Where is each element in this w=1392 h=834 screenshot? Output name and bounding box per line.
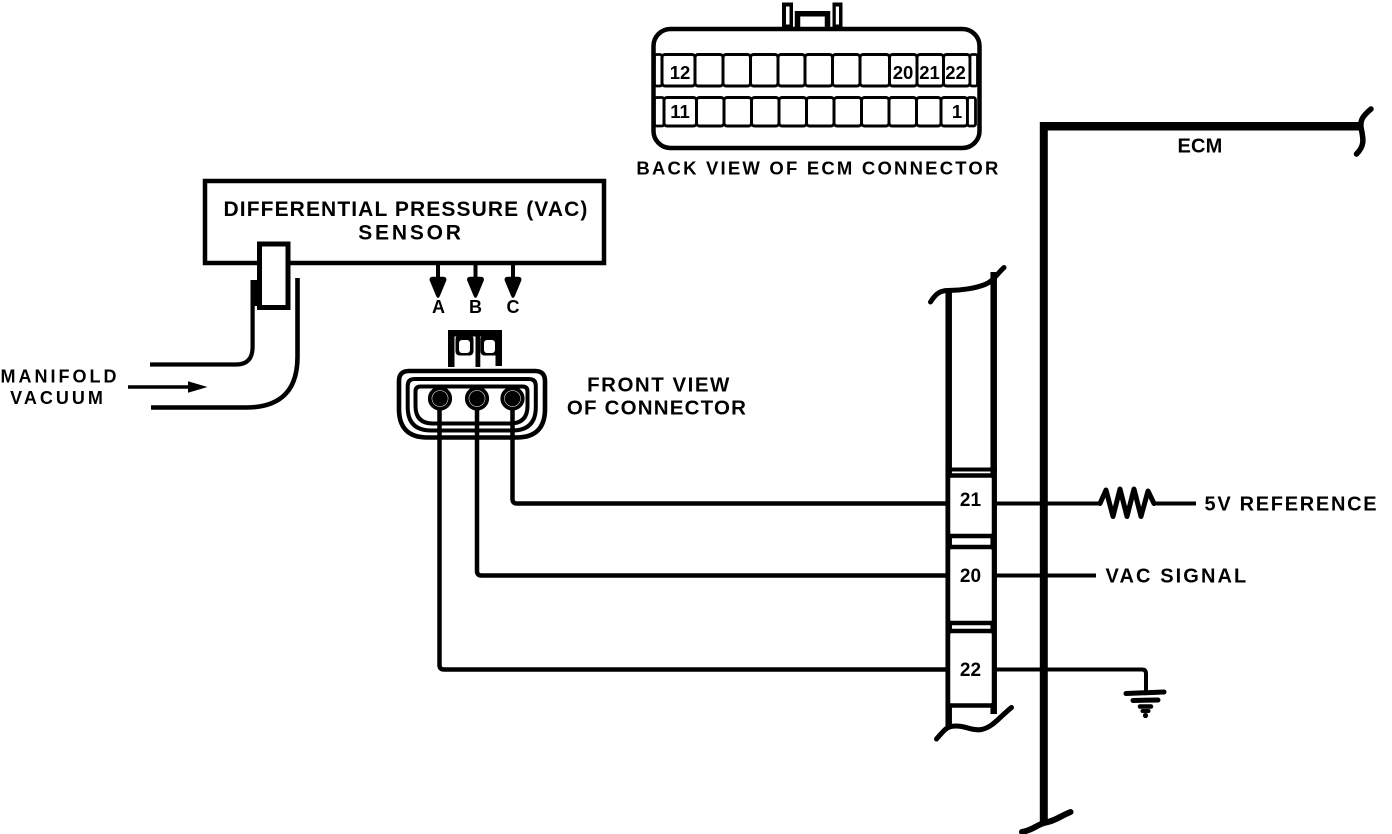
- wire pin 22 to ground: [994, 670, 1146, 692]
- sensor terminal arrow A: [430, 264, 447, 298]
- connector J2 latch right prong: [833, 3, 843, 31]
- pin cell 3: [889, 98, 917, 127]
- connector J2 back view shell: [654, 29, 980, 148]
- connector J2 latch handle: [798, 14, 828, 29]
- break symbol at ECM bottom: [1022, 812, 1071, 832]
- pin cell 6: [807, 98, 835, 127]
- vacuum pipe lower wall: [151, 278, 298, 408]
- pin cell 1: [941, 98, 968, 127]
- ECM box left edge wire: [1040, 122, 1048, 822]
- ECM pin 22 box: [948, 631, 994, 706]
- svg-text:OF CONNECTOR: OF CONNECTOR: [567, 397, 747, 420]
- svg-text:21: 21: [919, 62, 940, 83]
- svg-text:ECM: ECM: [1177, 136, 1222, 158]
- pin cell row 1 sliver left: [655, 55, 663, 87]
- pin cell 9: [724, 98, 752, 127]
- pin cell 19: [860, 55, 890, 87]
- manifold vacuum arrow: [128, 381, 208, 393]
- connector J1 outer shell: [399, 371, 545, 438]
- pin cell 20: [890, 55, 918, 87]
- svg-text:B: B: [469, 297, 482, 317]
- pin cell 15: [751, 55, 779, 87]
- svg-text:12: 12: [670, 62, 691, 83]
- sensor port black shoulder: [251, 280, 259, 306]
- pin A socket: [430, 388, 450, 408]
- pin cell 14: [723, 55, 751, 87]
- pin cell 8: [752, 98, 780, 127]
- svg-text:FRONT VIEW: FRONT VIEW: [587, 374, 731, 397]
- wire pin A to ECM pin 22: [440, 398, 949, 670]
- connector J1 middle shell: [408, 379, 536, 431]
- pin cell 11: [664, 98, 697, 127]
- svg-text:22: 22: [960, 660, 981, 681]
- pin cell 16: [778, 55, 805, 87]
- svg-text:C: C: [507, 297, 520, 317]
- pin cell 18: [833, 55, 861, 87]
- ECM pin 21 box: [948, 476, 994, 537]
- pin cell 5: [834, 98, 862, 127]
- pin cell 21: [917, 55, 944, 87]
- svg-text:11: 11: [670, 101, 690, 122]
- pin cell 12: [662, 55, 695, 87]
- pin cell 7: [779, 98, 807, 127]
- sensor terminal arrow B: [467, 264, 484, 298]
- break symbol at ECM top right: [1357, 109, 1372, 154]
- ground G1: [1126, 692, 1164, 718]
- connector J2 latch left prong: [782, 3, 793, 31]
- svg-text:20: 20: [893, 62, 914, 83]
- pin C socket: [502, 388, 522, 408]
- wire pin C to ECM pin 21: [513, 398, 949, 504]
- svg-text:A: A: [432, 297, 445, 317]
- svg-text:SENSOR: SENSOR: [358, 222, 464, 245]
- svg-text:DIFFERENTIAL PRESSURE (VAC): DIFFERENTIAL PRESSURE (VAC): [224, 198, 589, 221]
- sensor terminal arrow C: [505, 264, 522, 298]
- wire pin B to ECM pin 20: [477, 398, 948, 576]
- sensor port nipple: [260, 244, 289, 308]
- harness bar divider: [946, 468, 997, 472]
- svg-text:BACK VIEW OF ECM CONNECTOR: BACK VIEW OF ECM CONNECTOR: [636, 158, 1000, 179]
- pin cell 4: [862, 98, 890, 127]
- pin cell 22: [944, 55, 971, 87]
- pin cell 17: [805, 55, 833, 87]
- pin cell 13: [695, 55, 723, 87]
- ECM pin 20 box: [948, 547, 994, 623]
- wire pin 21 to resistor: [994, 502, 1101, 506]
- vacuum pipe upper wall: [150, 305, 253, 365]
- pin cell row 2 sliver right: [968, 98, 976, 127]
- harness bar right wall: [990, 272, 997, 714]
- break symbol at harness bottom: [937, 708, 1012, 740]
- connector J1 inner shell: [416, 387, 528, 424]
- connector J1 front view latch: [448, 330, 502, 367]
- resistor R1: [1100, 489, 1154, 517]
- svg-text:MANIFOLD: MANIFOLD: [1, 367, 120, 387]
- wire pin 20 to VAC SIGNAL label: [994, 574, 1096, 578]
- harness bar left wall: [945, 291, 952, 726]
- pin cell row 1 sliver right: [970, 55, 978, 87]
- svg-text:21: 21: [960, 490, 982, 511]
- pin B socket: [467, 388, 487, 408]
- svg-text:VAC SIGNAL: VAC SIGNAL: [1106, 566, 1249, 588]
- svg-text:22: 22: [945, 62, 966, 83]
- svg-text:20: 20: [960, 566, 981, 587]
- pin cell 2: [917, 98, 942, 127]
- svg-text:1: 1: [952, 101, 962, 122]
- svg-text:5V REFERENCE: 5V REFERENCE: [1205, 494, 1379, 516]
- ECM box top edge wire: [1040, 122, 1361, 131]
- sensor U1 box: [205, 181, 604, 263]
- wire resistor to 5V label: [1153, 502, 1196, 506]
- break symbol at harness top: [931, 268, 1005, 303]
- pin cell 10: [697, 98, 725, 127]
- svg-text:VACUUM: VACUUM: [10, 388, 106, 408]
- pin cell row 2 sliver left: [655, 98, 665, 127]
